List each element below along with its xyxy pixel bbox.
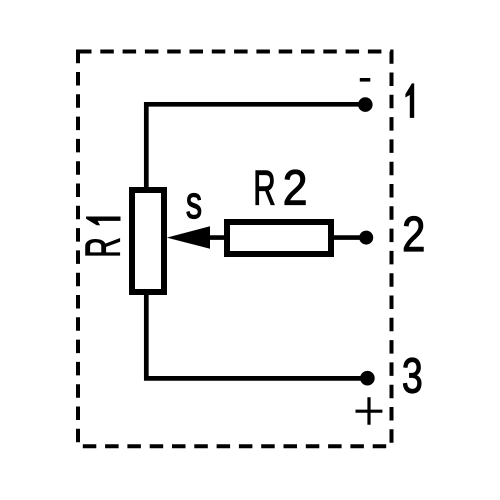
svg-text:R: R xyxy=(76,237,130,257)
pin number 1 xyxy=(405,83,414,118)
wire from R1 bottom to terminal 3 xyxy=(146,293,367,378)
terminal dot 2 xyxy=(359,231,373,245)
wire wiper to R2 xyxy=(208,235,226,240)
minus sign (terminal 1 polarity) xyxy=(360,78,371,82)
terminal dot 1 xyxy=(358,97,373,112)
dashed enclosure border xyxy=(78,52,392,447)
resistor R2 xyxy=(227,222,331,254)
terminal dot 3 xyxy=(360,371,375,386)
svg-text:R: R xyxy=(253,160,275,215)
svg-text:2: 2 xyxy=(283,160,308,214)
potentiometer R1 xyxy=(132,190,164,292)
wire R2 to terminal 2 xyxy=(334,235,366,240)
svg-text:s: s xyxy=(186,179,202,228)
wiper arrow xyxy=(167,226,210,249)
wire from R1 top to terminal 1 xyxy=(146,104,365,189)
svg-text:2: 2 xyxy=(402,207,425,262)
label R1: digit 1 (rotated) xyxy=(86,217,121,226)
plus sign (terminal 3 polarity) xyxy=(356,397,383,425)
svg-text:3: 3 xyxy=(402,349,423,404)
